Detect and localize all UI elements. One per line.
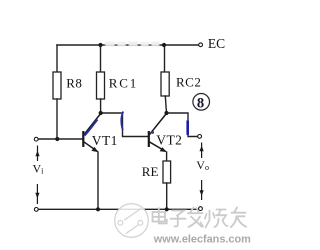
wire RC1 bottom lead	[100, 99, 102, 113]
char shao	[205, 210, 228, 228]
wire RE bottom lead	[166, 183, 168, 209]
transistor Q1 VT1	[83, 114, 100, 152]
wire bottom rail	[38, 208, 199, 210]
transistor Q2 VT2	[149, 114, 167, 152]
resistor R8	[53, 72, 61, 99]
watermark logo circle	[115, 204, 149, 238]
Vi direction arrow down	[35, 184, 39, 204]
char dian	[153, 208, 167, 224]
wire RC2 top lead	[164, 45, 166, 72]
Vi direction arrow up	[35, 146, 39, 162]
wire R8 bottom lead	[56, 99, 58, 139]
wire RC1 top lead	[100, 45, 102, 72]
terminal Vo top	[198, 135, 202, 139]
svg-text:Vo: Vo	[196, 158, 209, 172]
wire VT1 emitter down	[97, 152, 99, 209]
svg-text:RE: RE	[142, 164, 159, 179]
char fa	[188, 208, 203, 228]
svg-text:R8: R8	[66, 75, 82, 90]
svg-text:8: 8	[197, 95, 204, 111]
wire VT2 collector node to output	[167, 113, 198, 137]
char you	[231, 208, 246, 228]
terminal EC	[199, 43, 203, 47]
resistor RE	[163, 161, 171, 183]
Vo direction arrow down	[200, 180, 204, 200]
svg-text:EC: EC	[208, 36, 225, 51]
annotation blue ink coupling bend	[121, 112, 123, 131]
wire VT2 emitter to RE	[166, 152, 168, 161]
svg-text:www.elecfans.com: www.elecfans.com	[153, 234, 251, 246]
svg-text:RC1: RC1	[109, 75, 138, 90]
terminal Vi top	[34, 137, 38, 141]
svg-text:VT1: VT1	[92, 133, 118, 148]
svg-text:VT2: VT2	[156, 132, 182, 147]
wire Vi input to VT1 base	[38, 138, 82, 140]
Vo direction arrow up	[200, 143, 204, 159]
terminal Vo bottom	[199, 207, 203, 211]
char zi	[171, 211, 186, 227]
svg-text:RC2: RC2	[176, 74, 201, 89]
terminal Vi bottom	[34, 208, 38, 212]
annotation blue ink output stroke	[186, 121, 189, 135]
wire R8 top lead	[56, 45, 58, 72]
annotation blue ink VT2 base dot	[151, 131, 154, 134]
annotation blue ink VT1 collector	[85, 120, 98, 136]
wire top rail	[57, 44, 199, 46]
node junction dots	[55, 43, 169, 212]
wire coupling VT1 collector to VT2 base	[101, 113, 148, 137]
resistor RC2	[161, 72, 169, 96]
wire RC2 bottom lead	[165, 96, 166, 113]
svg-text:Vi: Vi	[33, 161, 45, 175]
watermark faint echo top	[105, 42, 160, 47]
watermark text dianzifashaoyou	[153, 208, 247, 228]
annotation circled 8	[193, 94, 210, 111]
resistor RC1	[97, 72, 105, 99]
